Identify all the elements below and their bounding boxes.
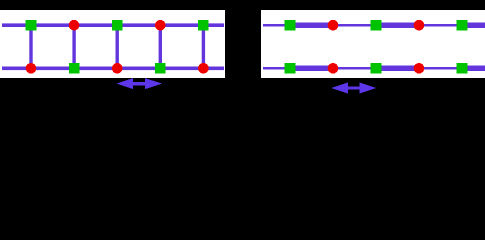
chain (b) top site 3: green square bbox=[371, 20, 382, 31]
ladder (a): rung 2 bbox=[72, 25, 75, 68]
ladder (a): double-headed displacement arrow bbox=[116, 78, 162, 89]
ladder (a): rung 3 bbox=[116, 25, 119, 68]
chain (b) bottom: thick bond G3-R4 bbox=[376, 66, 419, 72]
ladder (a) bottom rail site 2: green square bbox=[69, 63, 80, 74]
white panel behind ladder (a) bbox=[0, 10, 225, 78]
ladder (a) top rail site 3: green square bbox=[112, 20, 123, 31]
chain (b) top site 2: red circle bbox=[328, 20, 339, 31]
chain (b) bottom site 4: red circle bbox=[414, 63, 425, 74]
chain (b) top: thin base wire bbox=[263, 24, 485, 26]
chain (b) top: thick bond G5-edge bbox=[462, 23, 485, 29]
chain (b) bottom site 1: green square bbox=[285, 63, 296, 74]
ladder (a) bottom rail site 4: green square bbox=[155, 63, 166, 74]
chain (b) top: thick bond G3-R4 bbox=[376, 23, 419, 29]
ladder (a) top rail site 5: green square bbox=[198, 20, 209, 31]
ladder (a): rung 1 bbox=[29, 25, 32, 68]
chain (b) bottom site 3: green square bbox=[371, 63, 382, 74]
ladder (a) top rail site 2: red circle bbox=[69, 20, 80, 31]
ladder (a) bottom rail site 1: red circle bbox=[26, 63, 37, 74]
ladder (a) top rail site 4: red circle bbox=[155, 20, 166, 31]
ladder (a) bottom rail site 3: red circle bbox=[112, 63, 123, 74]
ladder (a) top rail site 1: green square bbox=[26, 20, 37, 31]
chain (b) bottom: thick bond G5-edge bbox=[462, 66, 485, 72]
chain (b) bottom site 5: green square bbox=[457, 63, 468, 74]
ladder (a): bottom rail wire bbox=[2, 67, 224, 71]
chain (b) top site 1: green square bbox=[285, 20, 296, 31]
chain (b) bottom: thick bond G1-R2 bbox=[290, 66, 333, 72]
chain (b): double-headed displacement arrow bbox=[331, 83, 376, 94]
ladder (a): top rail wire bbox=[2, 23, 224, 27]
chain (b) top site 4: red circle bbox=[414, 20, 425, 31]
chain (b) top site 5: green square bbox=[457, 20, 468, 31]
ladder (a) bottom rail site 5: red circle bbox=[198, 63, 209, 74]
white panel behind chains (b) bbox=[261, 10, 485, 78]
chain (b) bottom: thin base wire bbox=[263, 67, 485, 69]
chain (b) bottom site 2: red circle bbox=[328, 63, 339, 74]
ladder (a): rung 4 bbox=[159, 25, 162, 68]
chain (b) top: thick bond G1-R2 bbox=[290, 23, 333, 29]
ladder (a): rung 5 bbox=[202, 25, 205, 68]
